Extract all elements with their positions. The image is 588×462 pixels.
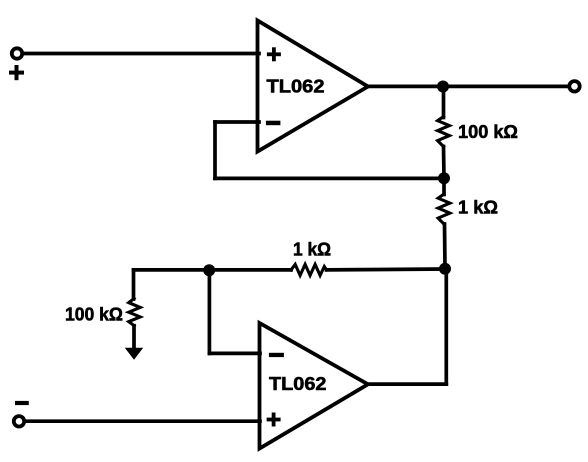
wire node B to R2 [442, 178, 446, 194]
svg-text:TL062: TL062 [269, 374, 327, 394]
wire U1 inverting input stub [215, 120, 259, 124]
node C (difference node junction) [439, 263, 451, 275]
svg-text:100 kΩ: 100 kΩ [65, 304, 123, 325]
wire left corner to R3 [134, 268, 292, 272]
pin label + (U2 noninverting input) [269, 414, 279, 424]
resistor R2 1 kOhm [438, 194, 450, 224]
label 1 kOhm (R3) [293, 238, 331, 259]
pin label - (U2 inverting input) [269, 353, 284, 357]
svg-text:100 kΩ: 100 kΩ [458, 121, 518, 142]
wire R3 to node C [327, 267, 446, 272]
label + (J1 polarity) [11, 67, 22, 78]
label 1 kOhm (R2) [458, 197, 498, 218]
svg-text:1 kΩ: 1 kΩ [293, 238, 331, 259]
terminal J2 (- input) [14, 416, 24, 426]
label - (J2 polarity) [15, 401, 29, 405]
wire R1 to node B [442, 147, 446, 179]
wire J2 to U2 noninverting input [26, 419, 261, 423]
node A (U1 output junction) [437, 81, 449, 93]
ground [125, 348, 143, 360]
wire R4 to ground [132, 326, 136, 349]
svg-text:TL062: TL062 [267, 77, 325, 97]
pin label - (U1 inverting input) [266, 121, 281, 126]
node B (feedback junction) [438, 172, 450, 184]
node D (U2 inverting junction) [203, 264, 215, 276]
label 100 kOhm (R1) [458, 121, 518, 142]
resistor R3 1 kOhm (horizontal) [291, 264, 327, 275]
terminal J3 (output) [569, 81, 579, 91]
wire node A to R1 [442, 87, 446, 118]
terminal J1 (+ input) [12, 48, 22, 58]
wire U2 output [368, 382, 446, 386]
wire U1 output [368, 85, 568, 89]
op-amp U2 TL062 [260, 323, 369, 449]
value label TL062 (U1) [267, 77, 325, 97]
wire to U2 inverting input [209, 352, 260, 356]
op-amp U1 TL062 [258, 21, 369, 152]
svg-text:1 kΩ: 1 kΩ [458, 197, 498, 218]
value label TL062 (U2) [269, 374, 327, 394]
wire R2 to node C [443, 224, 447, 269]
wire feedback horizontal to node B [215, 177, 444, 181]
resistor R4 100 kOhm [129, 299, 141, 326]
resistor R1 100 kOhm [438, 117, 450, 147]
wire node C down to U2 output corner [444, 269, 448, 384]
pin label + (U1 noninverting input) [269, 49, 279, 59]
wire feedback vertical [213, 122, 217, 178]
wire J1 to U1 noninverting input [24, 52, 260, 56]
label 100 kOhm (R4) [65, 304, 123, 325]
wire left corner down to R4 [132, 270, 136, 299]
wire node D down [208, 270, 212, 353]
